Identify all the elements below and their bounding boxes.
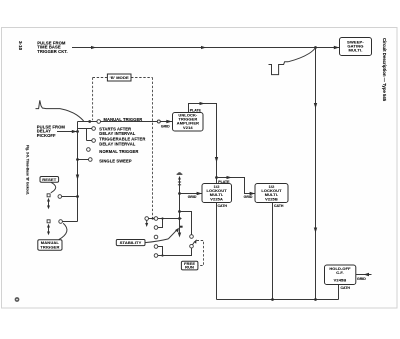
svg-text:Circuit Description — Type 545: Circuit Description — Type 545	[382, 38, 387, 102]
leader reset to pushbutton	[51, 182, 56, 193]
arrowhead into V225B grid	[250, 192, 255, 195]
svg-text:TRIGGER CKT.: TRIGGER CKT.	[37, 49, 67, 54]
node: junction top line	[314, 46, 317, 49]
node: grid tee on common	[178, 192, 181, 195]
arrowhead into hold-off grid	[364, 273, 370, 276]
dashed link to FREE RUN label	[197, 241, 204, 266]
wire: rail up to hold-off cathode	[338, 285, 340, 300]
wire: top stability line	[149, 218, 155, 220]
wire: vertical from top junction down to bottom rail	[315, 48, 317, 300]
wire: V214 plate up and over	[189, 104, 217, 184]
bottom rail	[217, 299, 339, 301]
leader manual trigger box	[59, 223, 67, 239]
svg-text:DELAY INTERVAL: DELAY INTERVAL	[99, 141, 135, 146]
arrowhead on plate route	[200, 102, 205, 105]
waveform sketch (lockout waveform)	[269, 62, 289, 75]
manual trigger pushbutton square	[47, 220, 50, 223]
switch position labels	[99, 127, 145, 164]
svg-text:STABILITY: STABILITY	[120, 240, 142, 245]
svg-text:CATH: CATH	[341, 286, 351, 290]
leader stability to wiper	[145, 239, 168, 243]
wire reset contact to bus	[62, 196, 78, 198]
svg-text:V214: V214	[183, 125, 193, 130]
V225A lockout multi box	[202, 184, 232, 203]
wire single sweep	[78, 159, 89, 161]
small connector on line	[157, 120, 160, 123]
arrowhead down on plate drop	[215, 157, 218, 163]
label: PULSE FROM TIME BASE TRIGGER CKT.	[37, 40, 67, 54]
B mode dashed box	[93, 74, 153, 218]
contact circle starts-after	[92, 127, 96, 131]
node where ganged dash meets	[152, 217, 154, 219]
wiper arrow between free run contacts	[193, 242, 195, 245]
strap contacts 4-5	[158, 247, 163, 256]
arrowhead on tee branch	[227, 176, 232, 179]
svg-text:C.F.: C.F.	[336, 270, 344, 275]
unlock trigger amplifier V214 box	[173, 113, 204, 132]
free run upper contact	[190, 235, 194, 239]
bus: vertical left bus	[77, 122, 79, 222]
svg-text:PICKOFF: PICKOFF	[37, 133, 56, 138]
svg-text:RESET: RESET	[42, 177, 56, 182]
svg-text:TRIGGER: TRIGGER	[40, 245, 59, 250]
svg-text:SINGLE SWEEP: SINGLE SWEEP	[99, 158, 132, 163]
svg-text:CATH: CATH	[274, 204, 284, 208]
manual trigger pushbutton updown arrow	[47, 224, 50, 235]
node plate/grid tee	[215, 176, 218, 179]
stability switch left contacts	[154, 217, 158, 221]
node strap top	[161, 217, 163, 219]
wire: delay pickoff into bus	[57, 131, 78, 133]
arrowhead into sweep-gating multi	[334, 46, 340, 50]
leader from waveform to junction	[288, 48, 315, 62]
contact circle manual trigger	[97, 120, 101, 124]
wire: manual trigger line	[78, 121, 173, 123]
node rail/V225B cath	[271, 298, 274, 301]
reset contact circle	[58, 195, 62, 199]
svg-text:V245B: V245B	[334, 278, 347, 283]
node: branch to free-run contact	[178, 210, 181, 213]
sweep-gating multi box	[340, 38, 372, 56]
strap for positions 2-3	[78, 129, 92, 141]
arrowhead mid trigger wire	[201, 46, 206, 49]
wiper diagonal with arrow	[168, 230, 177, 239]
contact circle triggerable-after	[92, 139, 96, 143]
supply symbol above switch common	[177, 172, 183, 179]
hold-off CF V245B box	[325, 265, 356, 285]
reset pushbutton updown arrow	[47, 198, 50, 209]
svg-text:GRID: GRID	[357, 277, 366, 281]
free run box	[181, 261, 198, 270]
arrowhead down on vertical wire	[314, 103, 317, 109]
wire: tee to V225B grid	[217, 178, 256, 194]
node single sweep on bus	[76, 158, 79, 161]
arrowhead down on bus	[76, 175, 79, 181]
contact circle single sweep	[89, 158, 93, 162]
strap contacts 1-2	[158, 219, 163, 228]
tick marks on common	[178, 181, 181, 183]
arrowhead delay pickoff	[72, 130, 77, 133]
reset box	[40, 177, 59, 183]
arrowhead down at bottom of common	[178, 233, 181, 238]
svg-text:3-10: 3-10	[18, 41, 23, 51]
svg-text:MANUAL TRIGGER: MANUAL TRIGGER	[104, 117, 143, 122]
svg-text:PLATE: PLATE	[190, 109, 202, 113]
svg-text:Fig. 3-9. Time-Base ‘B’ lockou: Fig. 3-9. Time-Base ‘B’ lockout.	[26, 145, 30, 195]
wire: common to V225A grid	[180, 193, 203, 195]
svg-text:RUN: RUN	[185, 265, 194, 270]
arrowhead on trigger wire	[91, 46, 96, 49]
svg-text:GRID: GRID	[188, 195, 197, 199]
svg-text:GRID: GRID	[161, 125, 170, 129]
svg-text:NORMAL TRIGGER: NORMAL TRIGGER	[99, 149, 138, 154]
svg-text:‘B’ MODE: ‘B’ MODE	[110, 75, 129, 80]
wire manual trigger contact to bus	[62, 221, 77, 223]
node: stability line junction	[178, 217, 181, 220]
second arrowhead down on vertical wire	[314, 228, 317, 234]
node rail/top-line vertical	[314, 298, 317, 301]
V225B lockout multi box	[255, 184, 288, 203]
manual trigger contact circle	[59, 220, 63, 224]
svg-text:GRID: GRID	[244, 195, 253, 199]
wire: hold-off grid stub	[356, 274, 372, 276]
reset pushbutton square	[47, 194, 50, 197]
svg-text:V225B: V225B	[265, 197, 278, 202]
node strap bottom	[161, 254, 163, 256]
left input waveform	[36, 100, 61, 108]
wire: V225B cathode down to rail	[272, 203, 274, 300]
svg-text:MULTI.: MULTI.	[349, 48, 363, 53]
label: PULSE FROM DELAY PICKOFF	[37, 124, 66, 138]
contact circle normal trigger	[87, 148, 91, 152]
wire: time base trigger to sweep-gating multi	[72, 47, 339, 49]
wiper contact with down arrow	[145, 217, 149, 221]
node on manual trigger line	[88, 120, 91, 123]
wire: bottom stability line to free run lower contact	[158, 248, 192, 256]
arrowhead into V214 grid	[166, 120, 172, 123]
arrowhead into V225A grid	[197, 192, 202, 195]
wire: V225A cathode down to rail	[216, 203, 218, 300]
leader from waveform to manual trigger line	[60, 109, 84, 122]
svg-text:CATH: CATH	[218, 204, 228, 208]
wiper tip blob	[180, 226, 183, 228]
node: bus/pickoff junction	[76, 130, 79, 133]
wire: branch to free-run upper contact	[180, 212, 192, 235]
free run lower contact	[190, 244, 194, 248]
svg-text:V225A: V225A	[210, 197, 223, 202]
wire: vertical switch common	[179, 180, 181, 234]
svg-text:DELAY INTERVAL: DELAY INTERVAL	[99, 131, 135, 136]
bottom-left mark	[15, 298, 18, 301]
stability box	[116, 240, 145, 246]
manual trigger box	[38, 240, 62, 250]
node reset on bus	[76, 195, 79, 198]
